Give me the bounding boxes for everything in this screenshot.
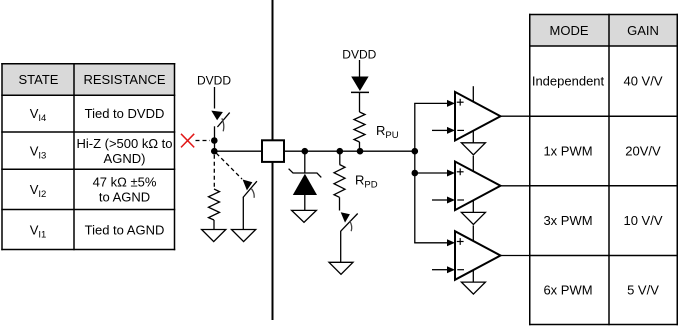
- op-amp U3 plus sign: [457, 238, 464, 245]
- wire S2 to ground: [242, 197, 244, 230]
- wire D1 to resistor RPU: [359, 92, 361, 112]
- wire stub U1 minus: [432, 129, 448, 131]
- ground G2: [232, 230, 256, 242]
- right table header text MODE / GAIN: [550, 23, 659, 38]
- svg-text:Tied to AGND: Tied to AGND: [85, 222, 165, 237]
- op-amp U2 body: [455, 162, 501, 211]
- diode D1 body: [351, 77, 368, 92]
- dashed wire node B to switch S2: [216, 153, 242, 179]
- op-amp U1 ground stub: [472, 131, 474, 143]
- left table cell text: [30, 106, 173, 240]
- wire S1 to node: [214, 126, 216, 152]
- svg-text:GAIN: GAIN: [627, 23, 659, 38]
- svg-text:1x PWM: 1x PWM: [543, 144, 592, 159]
- zener D2 body: [293, 174, 317, 195]
- wire DVDD to switch S1: [214, 87, 216, 109]
- ground G1: [202, 230, 226, 242]
- wire stub U3 minus: [432, 269, 448, 271]
- ground G7: [461, 282, 485, 294]
- wire U2 output: [501, 185, 530, 187]
- switch S1 arrowhead: [211, 111, 223, 121]
- arrowhead U3 plus: [447, 239, 455, 246]
- arrowhead U1 plus: [447, 100, 455, 107]
- op-amp U2 power stub: [472, 156, 474, 172]
- switch S2 blade: [243, 181, 257, 197]
- svg-text:Tied to DVDD: Tied to DVDD: [85, 106, 165, 121]
- arrowhead U1 minus: [447, 127, 455, 134]
- op-amp U1 body: [455, 92, 501, 141]
- resistor RPD: [334, 165, 345, 198]
- svg-text:RPD: RPD: [355, 173, 378, 191]
- device boundary line: [272, 0, 274, 320]
- op-amp U2 minus sign: [457, 199, 464, 201]
- right table cell text: [532, 74, 663, 298]
- wire node D to resistor RPD: [339, 151, 341, 164]
- switch S1 arc: [222, 118, 224, 131]
- op-amp U2 ground stub: [472, 200, 474, 212]
- op-amp U3 body: [455, 231, 501, 280]
- left table header fill: [2, 64, 175, 96]
- svg-text:Independent: Independent: [532, 74, 605, 89]
- svg-text:6x PWM: 6x PWM: [543, 283, 592, 298]
- svg-text:40 V/V: 40 V/V: [623, 74, 662, 89]
- svg-text:to AGND: to AGND: [99, 190, 150, 205]
- arrowhead U2 plus: [447, 170, 455, 177]
- svg-text:10 V/V: 10 V/V: [623, 213, 662, 228]
- wire stub U2 minus: [432, 199, 448, 201]
- svg-text:VI3: VI3: [30, 143, 47, 161]
- wire DVDD to diode D1: [359, 60, 361, 77]
- zener D2 cathode bar: [289, 169, 322, 178]
- node B junction dot: [211, 148, 218, 155]
- svg-text:20V/V: 20V/V: [625, 144, 661, 159]
- ground G3: [292, 210, 317, 222]
- op-amp U3 ground stub: [472, 270, 474, 282]
- svg-text:AGND): AGND): [104, 151, 146, 166]
- svg-text:3x PWM: 3x PWM: [543, 213, 592, 228]
- wire U3 output: [501, 255, 530, 257]
- switch S2 arc: [252, 189, 255, 198]
- wire bus to U3 plus: [414, 242, 448, 244]
- op-amp U3 minus sign: [457, 269, 464, 271]
- op-amp U1 plus sign: [457, 99, 464, 106]
- wire S3 to ground: [340, 231, 342, 262]
- left table header text STATE / RESISTANCE: [19, 72, 166, 87]
- op-amp U3 power stub: [472, 226, 474, 242]
- red X (no connect): [181, 134, 194, 148]
- switch S3 blade: [341, 214, 358, 232]
- svg-text:DVDD: DVDD: [342, 47, 376, 61]
- svg-text:47 kΩ ±5%: 47 kΩ ±5%: [93, 175, 157, 190]
- wire node C to zener: [304, 151, 306, 173]
- op-amp U1 power stub: [472, 86, 474, 102]
- resistor R1 47k: [209, 189, 220, 220]
- ground G4: [329, 262, 353, 274]
- ground G6: [461, 212, 485, 224]
- switch S3 arc: [350, 221, 352, 231]
- op-amp U1 minus sign: [457, 129, 464, 131]
- svg-text:STATE: STATE: [19, 72, 59, 87]
- left table grid: [1, 63, 175, 250]
- right table header fill: [530, 15, 678, 47]
- node C junction dot: [302, 148, 309, 155]
- op-amp U2 plus sign: [457, 168, 464, 175]
- wire U1 output: [501, 115, 530, 117]
- svg-text:VI4: VI4: [30, 106, 47, 124]
- wire RPD to switch S3: [339, 197, 341, 210]
- wire R1 to ground: [213, 220, 215, 230]
- main wire pin to bus: [284, 150, 415, 152]
- ground G5: [461, 143, 485, 155]
- dashed wire X to node A: [196, 140, 211, 142]
- node A junction dot: [211, 137, 218, 144]
- svg-text:Hi-Z (>500 kΩ to: Hi-Z (>500 kΩ to: [76, 136, 172, 151]
- wire bus to U2 plus: [414, 172, 448, 174]
- svg-text:VI1: VI1: [30, 222, 47, 240]
- svg-text:MODE: MODE: [550, 23, 589, 38]
- switch S3 arrowhead: [341, 212, 350, 222]
- svg-text:5 V/V: 5 V/V: [627, 283, 659, 298]
- switch S2 arrowhead: [243, 180, 253, 191]
- dashed wire node B to resistor: [213, 155, 215, 189]
- bus vertical wire: [414, 103, 416, 242]
- diode D1 cathode bar: [351, 91, 369, 93]
- svg-text:DVDD: DVDD: [197, 74, 231, 88]
- svg-text:RPU: RPU: [376, 123, 399, 141]
- svg-text:VI2: VI2: [30, 182, 47, 200]
- node D junction dot: [337, 148, 344, 155]
- pin box: [262, 140, 284, 162]
- bus node dot branch2: [412, 170, 419, 177]
- wire RPU to node E: [359, 142, 361, 151]
- right table grid: [529, 14, 678, 326]
- resistor RPU: [354, 112, 365, 142]
- svg-text:RESISTANCE: RESISTANCE: [83, 72, 165, 87]
- arrowhead U3 minus: [447, 266, 455, 273]
- wire bus to U1 plus: [414, 102, 448, 104]
- wire node B to pin box: [214, 150, 262, 152]
- bus node dot main: [412, 148, 419, 155]
- node E junction dot: [357, 148, 364, 155]
- arrowhead U2 minus: [447, 197, 455, 204]
- switch S1 blade: [217, 113, 229, 127]
- wire zener to ground: [304, 195, 306, 210]
